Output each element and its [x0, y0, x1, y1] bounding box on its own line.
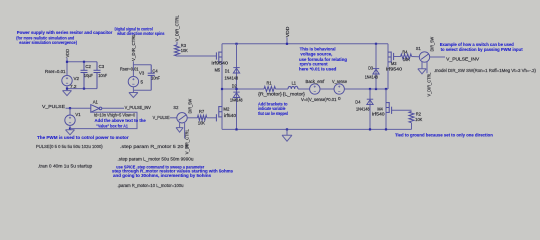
behavioral source Back_emf — [310, 84, 320, 94]
resistor R1 — [264, 87, 276, 92]
ground under V3 — [129, 93, 138, 98]
wire A1 com return — [70, 112, 137, 128]
svg-text:to select direction by passing: to select direction by passing PWM input — [441, 47, 523, 52]
switch S1 — [419, 52, 429, 62]
capacitor C2 — [81, 62, 88, 89]
wire R3 bottom — [176, 55, 178, 57]
wire VDD top rail — [222, 43, 388, 45]
ground under V1 — [66, 130, 75, 135]
wire V1 bottom lead — [69, 126, 71, 130]
wire M4 gate to R2 — [392, 109, 412, 111]
wire S2 ctrl- lead — [184, 123, 186, 139]
svg-text:R1: R1 — [267, 80, 272, 85]
wire C4 bottom return — [133, 89, 151, 91]
diode D1 — [233, 68, 239, 73]
junction at V2 top — [66, 61, 68, 63]
wire VDD stub + V2 top lead — [66, 58, 68, 76]
wire S1 ctrl- lead — [426, 62, 428, 73]
capacitor C4 — [148, 65, 155, 91]
svg-text:V_PULSE: V_PULSE — [153, 115, 170, 120]
svg-text:.model DIR_SW SW(Ron=1 Roff=1M: .model DIR_SW SW(Ron=1 Roff=1Meg Vt=3 Vh… — [434, 68, 537, 73]
inverter A1 — [91, 105, 102, 113]
inductor L1 — [288, 86, 298, 89]
svg-text:DIR_SW: DIR_SW — [187, 98, 192, 113]
svg-text:M3: M3 — [391, 61, 397, 66]
wire top of cap branch — [67, 61, 97, 63]
svg-text:V_PULSE_INV: V_PULSE_INV — [446, 56, 479, 61]
resistor R7 — [197, 115, 206, 120]
voltage source V_sense — [334, 84, 344, 94]
junction — [369, 88, 371, 90]
svg-text:V=I(V_sense)*0.01: V=I(V_sense)*0.01 — [301, 97, 337, 102]
wire V3 bottom lead — [132, 87, 134, 93]
wire M3 gate to R4 — [394, 56, 401, 58]
wire A1 output — [102, 107, 124, 109]
svg-text:C4: C4 — [152, 68, 158, 73]
svg-text:S2: S2 — [173, 105, 178, 110]
wire VDD flag stub — [286, 38, 288, 44]
ground under V2 — [63, 91, 72, 96]
wire R4 to S1 — [412, 56, 420, 58]
svg-text:10nF: 10nF — [98, 73, 107, 78]
svg-text:C3: C3 — [99, 64, 105, 69]
svg-text:"Value" box for A1: "Value" box for A1 — [96, 123, 128, 128]
svg-text:irf540: irf540 — [372, 112, 385, 117]
svg-text:.param R_motor=10 L_motor=100u: .param R_motor=10 L_motor=100u — [118, 183, 184, 188]
diode D3 — [373, 69, 379, 74]
junction at V1 bottom — [69, 128, 71, 130]
wire S2 to R7 — [187, 117, 197, 119]
svg-text:.step param R_motor 5 20 5: .step param R_motor 5 20 5 — [120, 144, 189, 149]
svg-text:easier simulation convergence): easier simulation convergence) — [19, 40, 77, 45]
wire M4 body column — [385, 89, 387, 129]
wire M5/M2 body column — [221, 44, 223, 130]
svg-text:D1: D1 — [225, 68, 230, 73]
svg-text:V_DIR_CTRL: V_DIR_CTRL — [426, 72, 431, 96]
wire R3 top lead — [176, 42, 178, 45]
wire ground stub — [286, 129, 288, 135]
diode D4 — [367, 99, 373, 104]
svg-text:what direction motor spins: what direction motor spins — [116, 31, 165, 36]
svg-text:10K: 10K — [403, 57, 410, 62]
svg-text:C2: C2 — [85, 64, 91, 69]
junction — [385, 128, 387, 130]
transistor M3 (pmos irf9540 mirrored) — [388, 52, 394, 63]
svg-text:S1: S1 — [416, 46, 421, 51]
junction — [286, 43, 288, 45]
svg-text:DIR_SW: DIR_SW — [429, 36, 434, 51]
junction at C2 top — [83, 61, 85, 63]
svg-text:10K: 10K — [415, 117, 422, 122]
svg-text:V_DIR_CTRL: V_DIR_CTRL — [131, 34, 136, 61]
svg-text:1N4148: 1N4148 — [356, 106, 370, 111]
resistor R3 — [175, 45, 180, 56]
svg-text:V3: V3 — [139, 71, 145, 76]
svg-text:V1: V1 — [75, 112, 81, 117]
transistor M4 (nmos irf540 mirrored) — [386, 102, 392, 114]
svg-text:Add the above text to the: Add the above text to the — [95, 118, 147, 123]
wire R7 to M2 gate — [207, 117, 216, 119]
junction — [286, 128, 288, 130]
wire to C4 — [133, 64, 151, 66]
wire to S2 — [170, 117, 177, 119]
junction at V2 bottom — [66, 88, 68, 90]
junction — [375, 43, 377, 45]
voltage source V1 — [65, 115, 75, 125]
svg-text:irf540: irf540 — [224, 113, 237, 118]
wire R1 to L1 — [276, 88, 289, 90]
wire V1 top lead — [69, 108, 71, 115]
switch S2 — [177, 113, 187, 123]
svg-text:.step param L_motor 50u 50m 99: .step param L_motor 50u 50m 9990u — [118, 157, 194, 162]
wire Back_emf to V_sense — [320, 88, 334, 90]
svg-text:Rser=0.01: Rser=0.01 — [120, 67, 139, 72]
svg-text:.tran 0 40m 1u 5u startup: .tran 0 40m 1u 5u startup — [38, 163, 93, 168]
svg-text:R4: R4 — [402, 49, 407, 54]
junction — [385, 88, 387, 90]
wire mid rail right — [345, 88, 389, 90]
wire D4 column — [369, 89, 371, 129]
diode D2 — [233, 92, 239, 97]
svg-text:V_PULSE_INV: V_PULSE_INV — [125, 105, 151, 110]
svg-text:PULSE(0 5 0 5u 5u 50u 102u 100: PULSE(0 5 0 5u 5u 50u 102u 1000) — [36, 144, 103, 149]
voltage source V3 — [128, 76, 138, 86]
junction — [235, 43, 237, 45]
svg-text:VDD: VDD — [285, 26, 290, 37]
resistor R4 — [401, 54, 412, 59]
wire M3 body column — [387, 44, 389, 89]
svg-text:{L_motor}: {L_motor} — [283, 92, 306, 97]
svg-text:D4: D4 — [355, 100, 361, 105]
svg-text:7.2: 7.2 — [70, 84, 77, 89]
svg-text:D2: D2 — [232, 84, 237, 89]
wire mid rail left — [222, 88, 264, 90]
svg-text:that can be stepped: that can be stepped — [258, 111, 288, 116]
svg-text:L1: L1 — [292, 80, 297, 85]
svg-text:Rser=0.01: Rser=0.01 — [45, 69, 66, 74]
ground at S2 control — [176, 128, 183, 133]
svg-text:V_PULSE: V_PULSE — [42, 104, 65, 109]
wire bottom of cap branch — [67, 88, 97, 90]
svg-text:irf9540: irf9540 — [386, 67, 403, 72]
svg-text:D3: D3 — [368, 66, 373, 71]
svg-text:td=10n Vhigh=5 Vlow=0: td=10n Vhigh=5 Vlow=0 — [94, 113, 135, 118]
junction — [221, 88, 223, 90]
capacitor C3 — [94, 62, 101, 89]
svg-text:1N4148: 1N4148 — [365, 75, 379, 80]
svg-text:1N4148: 1N4148 — [230, 98, 243, 103]
junction — [369, 128, 371, 130]
transistor M5 (pmos irf9540) — [216, 52, 222, 63]
svg-text:here *0.01 is used: here *0.01 is used — [299, 66, 337, 71]
svg-text:M4: M4 — [377, 106, 383, 111]
svg-text:V_sense: V_sense — [332, 79, 347, 84]
svg-text:V_DIR_CTRL: V_DIR_CTRL — [175, 15, 180, 41]
wire R3 to M5 gate — [177, 55, 216, 57]
svg-text:VDD: VDD — [65, 48, 70, 57]
svg-text:Tied to ground because set to: Tied to ground because set to only one d… — [395, 133, 493, 138]
wire V1 to A1 input — [66, 107, 91, 109]
wire D3 column — [375, 44, 377, 89]
svg-text:M2: M2 — [223, 107, 229, 112]
resistor R2 — [409, 112, 414, 123]
svg-text:Back_emf: Back_emf — [306, 79, 325, 84]
svg-text:voltage source,: voltage source, — [300, 51, 332, 56]
svg-text:The PWM is used to cotrol powe: The PWM is used to cotrol power to motor — [37, 135, 129, 140]
wire R2 bottom to rail — [411, 123, 413, 129]
svg-text:10µF: 10µF — [84, 73, 93, 78]
svg-text:10nF: 10nF — [151, 76, 160, 81]
junction — [375, 88, 377, 90]
wire S2 ctrl+ lead — [179, 123, 181, 128]
transistor M2 (nmos irf540) — [216, 106, 222, 121]
svg-text:R7: R7 — [199, 109, 205, 114]
svg-text:M5: M5 — [215, 68, 221, 73]
svg-text:A1: A1 — [93, 99, 99, 104]
junction — [235, 128, 237, 130]
ground at S1 control — [418, 69, 426, 74]
wire S1 ctrl+ lead — [421, 62, 423, 69]
wire V2 bottom lead — [66, 86, 68, 91]
junction at C2 bottom — [83, 88, 85, 90]
svg-text:V2: V2 — [74, 76, 80, 81]
junction — [235, 88, 237, 90]
wire S1 output — [430, 56, 445, 58]
svg-text:irf9540: irf9540 — [212, 60, 229, 65]
svg-text:and going to 30ohms, increment: and going to 30ohms, incrementing by 5oh… — [113, 173, 211, 178]
svg-text:10K: 10K — [198, 121, 205, 126]
svg-text:V_DIR_CTRL: V_DIR_CTRL — [185, 129, 190, 154]
svg-text:1N4148: 1N4148 — [225, 75, 239, 80]
wire D1/D2 column — [236, 44, 238, 130]
svg-text:Power supply with series resit: Power supply with series resitor and cap… — [17, 30, 113, 35]
wire V3 top lead — [132, 61, 134, 76]
svg-text:{R_motor}: {R_motor} — [258, 92, 282, 97]
svg-text:10K: 10K — [181, 48, 188, 53]
ground on bottom rail — [282, 135, 292, 141]
junction at V1 top — [69, 107, 71, 109]
wire ground bottom rail — [222, 128, 412, 130]
voltage source V2 — [62, 75, 72, 85]
wire L1 to Back_emf — [298, 88, 310, 90]
